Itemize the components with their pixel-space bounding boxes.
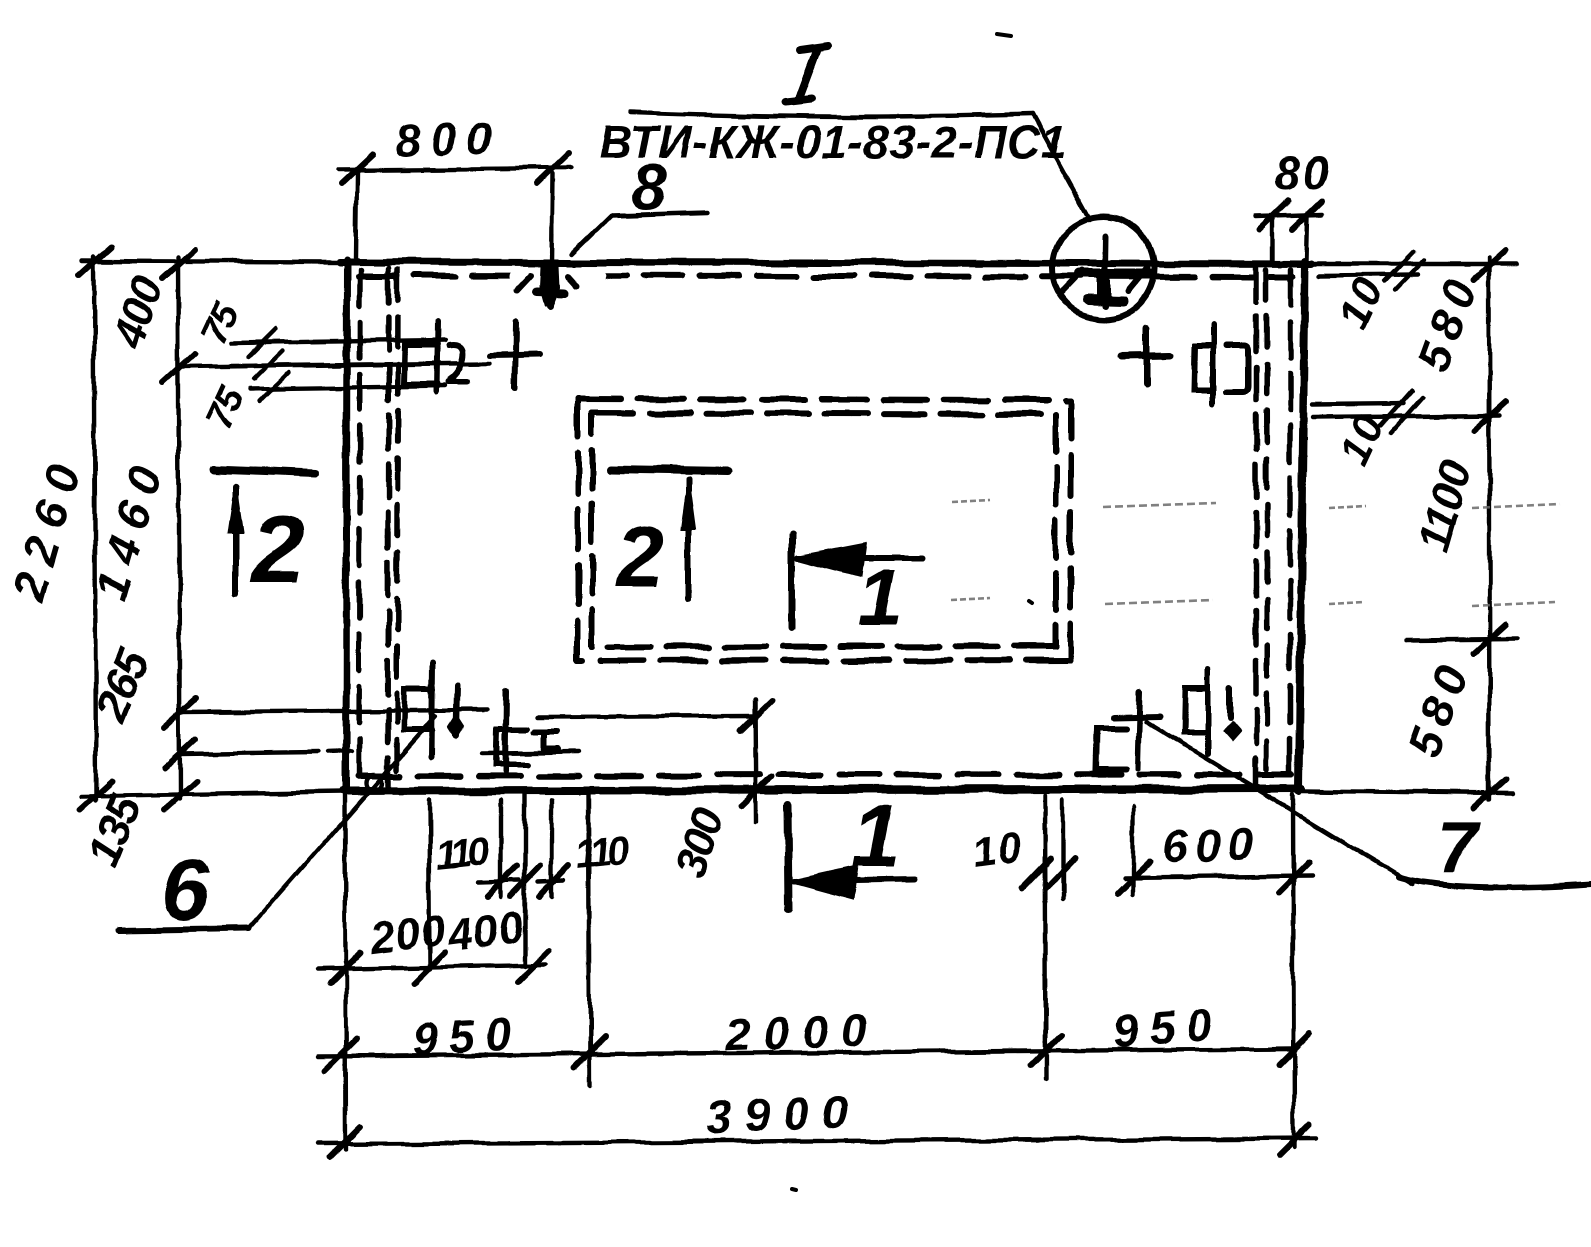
left dim line 2260 [94,257,96,801]
inner dashed line below top edge [358,276,1292,277]
svg-text:580: 580 [1406,265,1489,377]
callout 6 leader [250,716,436,928]
right tick y415 [1474,401,1506,430]
anchor bottom-right2 vertical [1205,670,1211,754]
section mark 1 inner vertical [789,535,796,628]
dim 800 tick right [537,153,569,184]
detail circle vertical axis [1105,236,1106,306]
extension y753 dash [328,751,352,752]
svg-text:10: 10 [1329,269,1393,335]
right 10b line lower [1313,415,1499,417]
extension y753 left [179,752,318,754]
right 10b tick2 [1391,397,1422,432]
bottom edge extension to right [1302,791,1512,793]
svg-text:2260: 2260 [2,447,94,607]
110 tick a [487,866,517,897]
right tick y264 [1474,250,1506,279]
600 dim line [1124,876,1312,878]
svg-text:7: 7 [1437,808,1480,888]
anchor bottom-right2 bracket [1184,689,1206,733]
tick 2260 top [79,247,111,276]
callout 6 underline [119,928,250,930]
10 bottom tick2 [1046,858,1075,888]
svg-text:3900: 3900 [705,1085,861,1142]
anchor bottom-left2 vertical [505,690,506,771]
svg-text:110: 110 [573,828,631,877]
loop flare right [569,276,578,286]
ext vertical x1063 [1061,800,1065,899]
loop blob body [541,265,559,305]
right 10b tick1 [1381,390,1412,425]
extension y368 [179,365,340,367]
dim 80 ext left [1271,216,1275,261]
section mark 2 inner arrowhead [681,478,695,530]
ext vertical x589 [589,792,590,1086]
right tick y793 [1474,779,1506,808]
detail anchor T-bar [1080,269,1150,279]
svg-text:580: 580 [1397,651,1480,763]
dim line 3900 [318,1138,1317,1144]
top edge extension to right [1313,262,1517,266]
tick 2260 bottom [80,781,112,810]
300 horizontal line [537,716,755,717]
svg-text:6: 6 [161,842,210,938]
callout 8 underline [612,212,707,215]
75 tick c [260,373,288,401]
section mark 2 left arrowhead [229,484,243,532]
tick left2 y753 [164,739,196,768]
tick 3900 right [1279,1124,1310,1155]
detail slash right [1128,268,1147,291]
anchor top-left cross h [491,354,541,355]
svg-text:400: 400 [104,270,173,355]
section mark 2 inner shaft [685,479,691,599]
anchor bottom-left bracket [404,689,433,730]
section mark 1 inner arrow line [798,555,922,561]
ext vertical x501 [499,800,503,897]
tick 950 left end [325,1039,356,1070]
tick x1294 right end [1279,1034,1310,1065]
anchor bottom-right vertical [1137,691,1139,769]
svg-text:75: 75 [198,380,253,435]
75 extension upper y342 [231,340,445,343]
section mark 1 bottom vertical [788,805,789,910]
smudge band 1 [952,500,990,502]
600 tick left [1118,862,1149,893]
anchor top-left vertical [436,322,437,392]
ext vertical x1045 [1045,795,1046,1080]
svg-text:2: 2 [249,496,304,603]
200 tick mid [414,952,445,983]
left end-zone dashed vertical b [397,270,398,786]
ext vertical x525 [523,794,527,966]
right extension y639 [1407,639,1517,640]
right 10b line upper [1313,403,1403,404]
anchor bottom-left diamond [449,716,463,738]
left inner dashed vertical [359,270,360,786]
detail anchor foot [1089,300,1123,301]
loop blob foot [537,292,565,293]
stray dot bottom [792,1189,796,1190]
smudge band 5 [1105,600,1213,604]
detail slash left [1061,271,1083,294]
left end-zone dashed vertical a [388,268,389,786]
ext vertical x429 [429,800,430,969]
tick left2 y712 [164,698,196,727]
300 tick bottom edge [741,777,771,806]
bottom edge extension to left [82,792,345,796]
stray dash top [997,34,1011,36]
right 10a tick1 [1385,252,1414,282]
200 tick left [330,952,361,983]
400 tick right [518,951,549,982]
svg-text:800: 800 [394,111,502,167]
callout I leader to circle [1032,114,1090,220]
callout 7 leader [1145,721,1412,884]
smudge band 3 [1329,506,1366,508]
section mark 1 bottom arrow line [794,879,917,881]
anchor bottom-left2 step [534,732,558,750]
label I glyph [786,46,828,102]
dim 80 tick left [1259,201,1288,229]
ext vertical x552 [550,800,554,897]
anchor top-left cross v [515,322,516,388]
dim 800 line [338,168,572,170]
75 tick b [254,351,282,379]
svg-text:2000: 2000 [723,1003,880,1060]
opening inner dashed rectangle [592,413,1056,414]
dim 800 ext left [356,172,357,258]
smudge band 4 [951,598,990,600]
ext vertical x1294 [1293,795,1294,1147]
svg-text:600: 600 [1162,817,1262,872]
tick x589 [574,1037,605,1068]
110 dim seg b [538,881,564,882]
panel outline top edge [340,262,1312,264]
anchor bottom-left vertical [432,663,433,757]
svg-text:80: 80 [1274,147,1331,199]
anchor bottom-right bar [1113,716,1160,717]
anchor bottom-right bracket [1096,728,1125,770]
110 tick b [511,866,541,897]
opening outer dashed rectangle [578,399,1071,400]
svg-text:950: 950 [411,1007,523,1065]
anchor top-right bracket [1194,346,1213,390]
smudge band 7 [1472,504,1560,508]
gray scan smudges [951,500,1560,606]
dim 800 ext right [552,174,553,266]
svg-text:1100: 1100 [1409,455,1482,557]
ext vertical x345 bottom [345,795,346,1150]
tick left2 y368 [163,354,195,383]
callout 7 underline [1398,877,1591,887]
panel outline bottom edge [344,789,1302,791]
anchor top-right cross h [1121,355,1171,356]
svg-text:400: 400 [444,903,527,961]
110 tick c [539,866,569,897]
dim 80 ext right [1307,216,1308,261]
300 tick top [741,702,771,731]
dim 800 tick left [341,154,373,184]
right dim line 580/1100/580 [1489,257,1490,800]
right 10a second line [1319,275,1418,276]
75 extension mid y364 [230,363,490,366]
callout 8 leader [572,215,612,254]
notch dash gap [516,271,600,284]
stray dot mid [1029,601,1032,603]
svg-text:1: 1 [852,786,901,885]
600 ext left [1131,806,1135,894]
dim 80 tick right [1293,201,1322,229]
panel outline right edge [1299,262,1305,791]
anchor top-left hook [448,345,467,382]
smudge band 2 [1103,503,1216,507]
detail circle [1052,217,1154,319]
anchor top-left bracket [404,345,437,384]
extension y712 left [179,710,487,712]
inner dashed line above bottom edge [358,775,1292,776]
svg-text:200: 200 [366,906,449,964]
detail anchor stem [1098,276,1111,299]
anchor bottom-left cross v [456,685,457,736]
anchor bottom-left2 bracket [496,729,527,764]
anchor top-right vertical [1210,325,1216,404]
svg-text:10: 10 [970,823,1027,877]
section mark 2 left shaft [233,487,239,593]
200/400 dim line [318,965,546,969]
section mark 1 bottom arrowhead [793,867,856,897]
tick x1045 [1030,1035,1061,1066]
75 extension lower y387 [250,386,445,389]
section mark 2 inner bar [610,469,729,471]
loop flare left [517,275,531,290]
svg-text:2: 2 [614,509,664,605]
anchor bottom-left2 bar [482,752,579,753]
tick 3900 left [330,1127,361,1158]
loop blob tip [547,298,554,306]
section mark 1 inner arrowhead [797,545,864,575]
panel outline left edge [346,260,347,791]
section mark 2 left bar [214,470,317,474]
right 10a tick2 [1395,260,1424,290]
dim line 950/2000/950 [318,1049,1294,1056]
svg-text:950: 950 [1111,997,1224,1057]
10 bottom tick1 [1022,858,1051,888]
top edge extension to left [82,261,345,262]
anchor top-right C [1226,346,1248,391]
svg-text:110: 110 [433,829,491,878]
svg-text:1: 1 [858,553,903,642]
tick left2 y795 [164,781,196,810]
smudge band 8 [1472,602,1555,606]
right end-zone dashed vertical a [1253,268,1259,786]
left dim line 400/1460/265/135 [178,257,180,799]
svg-text:8: 8 [631,151,667,223]
600 tick right [1278,862,1309,893]
110 dim seg a [478,881,520,882]
right inner dashed vertical [1287,270,1293,786]
75 tick a [248,329,276,357]
callout I horizontal line [630,112,1032,117]
tick left2 y264 [163,250,195,279]
right tick y639 [1474,625,1506,654]
svg-text:300: 300 [665,801,733,883]
300 vertical line [755,700,756,822]
svg-text:ВТИ-КЖ-01-83-2-ПС1: ВТИ-КЖ-01-83-2-ПС1 [599,116,1067,168]
smudge band 6 [1329,602,1364,604]
anchor top-right cross v [1143,328,1150,384]
dim 80 line [1256,214,1322,216]
anchor bottom-right2 diamond [1224,722,1240,740]
anchor bottom-right2 bar [1227,689,1233,718]
svg-text:1460: 1460 [84,450,174,605]
bottom-left corner loop [366,775,382,791]
right end-zone dashed vertical b [1266,270,1267,786]
